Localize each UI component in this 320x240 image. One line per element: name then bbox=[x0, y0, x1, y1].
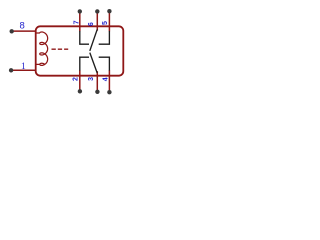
svg-text:2: 2 bbox=[73, 77, 80, 81]
svg-text:4: 4 bbox=[103, 77, 110, 81]
pin 8 lead wire bbox=[12, 30, 36, 32]
switch 1 fixed contact from pin 7 bbox=[80, 31, 89, 44]
svg-text:1: 1 bbox=[21, 62, 26, 72]
pin 3 terminal dot bbox=[95, 90, 99, 94]
pin 8 terminal dot bbox=[10, 29, 14, 33]
switch 1 fixed contact from pin 5 bbox=[99, 31, 110, 44]
pin 7 terminal dot bbox=[78, 9, 82, 13]
pin 7 lead wire bbox=[79, 11, 81, 31]
switch 2 fixed contact from pin 2 bbox=[80, 57, 89, 70]
pin 3 lead wire bbox=[96, 71, 98, 92]
svg-text:3: 3 bbox=[88, 77, 95, 81]
svg-text:5: 5 bbox=[102, 21, 109, 25]
svg-text:6: 6 bbox=[88, 22, 95, 26]
pin 6 terminal dot bbox=[95, 9, 99, 13]
pin 2 lead wire bbox=[79, 70, 81, 91]
pin 2 terminal dot bbox=[78, 89, 82, 93]
pin 4 terminal dot bbox=[107, 90, 111, 94]
pin 6 lead wire bbox=[96, 11, 98, 30]
relay coil (inductor) bbox=[36, 32, 48, 65]
switch 2 movable arm from pin 3 bbox=[90, 53, 97, 73]
svg-text:7: 7 bbox=[74, 20, 81, 24]
pin 5 terminal dot bbox=[107, 9, 111, 13]
switch 2 fixed contact from pin 4 bbox=[99, 57, 110, 70]
svg-text:8: 8 bbox=[20, 21, 25, 32]
switch 1 movable arm from pin 6 bbox=[90, 29, 97, 51]
pin 5 lead wire bbox=[108, 11, 110, 31]
pin 4 lead wire bbox=[108, 70, 110, 92]
pin 1 terminal dot bbox=[9, 68, 13, 72]
relay body outline box bbox=[36, 26, 124, 75]
pin 1 lead wire bbox=[12, 69, 37, 71]
mechanical linkage dashed line bbox=[52, 48, 69, 50]
